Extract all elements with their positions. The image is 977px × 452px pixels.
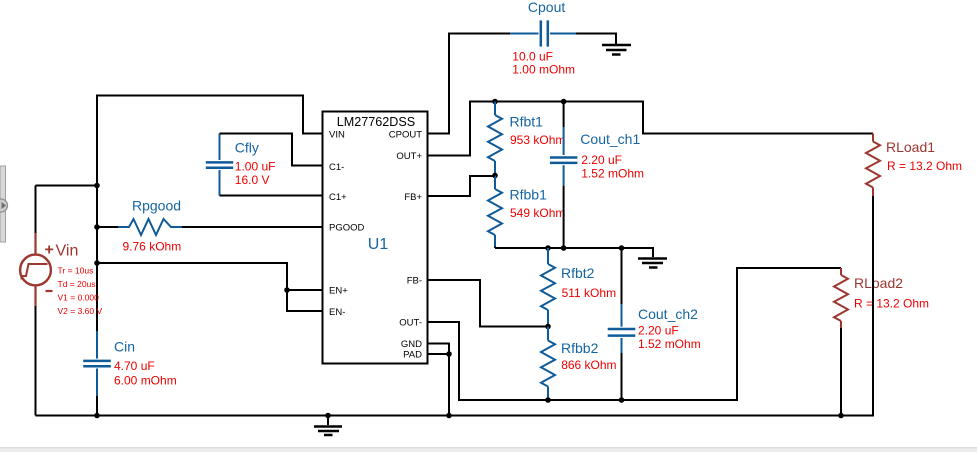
wire: Vin bottom to ground rail — [35, 306, 37, 416]
wire: OUT- net to RLoad2 — [428, 268, 842, 400]
bottom status bar — [0, 448, 977, 452]
node junction Rfbt2/Rfbb2/FB- — [545, 324, 551, 330]
node junction Vin+/bus — [94, 183, 100, 189]
node junction Cin/ground rail — [94, 413, 100, 419]
svg-text:PAD: PAD — [403, 350, 422, 361]
svg-text:Rfbt1: Rfbt1 — [510, 114, 544, 130]
IC U1 LM27762DSS — [323, 112, 428, 364]
wire: CPOUT pin up to Cpout rail — [428, 34, 511, 134]
ground (mid rail) — [638, 259, 667, 268]
voltage source Vin — [20, 233, 78, 306]
svg-text:EN+: EN+ — [329, 286, 348, 297]
svg-text:9.76 kOhm: 9.76 kOhm — [123, 240, 182, 254]
svg-text:Rfbt2: Rfbt2 — [561, 265, 595, 281]
node junction GND/PAD — [446, 351, 452, 357]
svg-text:953 kOhm: 953 kOhm — [510, 133, 565, 147]
wire: Cpout to ground — [576, 34, 616, 45]
svg-text:RLoad1: RLoad1 — [886, 139, 935, 155]
svg-text:2.20 uF: 2.20 uF — [638, 324, 679, 338]
wire: Cfly top to C1- pin — [220, 134, 323, 166]
svg-text:V2 = 3.60 V: V2 = 3.60 V — [58, 306, 103, 316]
value label Vin parameters — [58, 266, 103, 317]
svg-text:R = 13.2 Ohm: R = 13.2 Ohm — [887, 159, 962, 173]
svg-text:GND: GND — [401, 339, 422, 350]
svg-text:1.52 mOhm: 1.52 mOhm — [638, 337, 701, 351]
node junction OUT- rail/Cout_ch2 — [619, 397, 625, 403]
svg-text:LM27762DSS: LM27762DSS — [337, 115, 415, 129]
node junction OUT+/Cout_ch1 — [561, 99, 567, 105]
wire: Vin top lead black — [35, 186, 37, 234]
svg-text:CPOUT: CPOUT — [389, 130, 422, 141]
wire: GND/PAD to ground rail — [448, 354, 450, 416]
capacitor Cin — [83, 331, 111, 396]
svg-text:16.0 V: 16.0 V — [235, 173, 270, 187]
svg-text:549 kOhm: 549 kOhm — [510, 206, 565, 220]
wire: bottom ground rail — [36, 196, 874, 416]
node junction EN+ — [284, 287, 290, 293]
svg-text:OUT-: OUT- — [399, 318, 422, 329]
left panel toggle button — [0, 199, 8, 212]
svg-text:FB-: FB- — [407, 276, 422, 287]
wire: Vin+ to left bus — [36, 185, 98, 187]
svg-text:C1-: C1- — [329, 162, 344, 173]
capacitor Cout_ch1 — [550, 102, 578, 249]
wire: PAD pin — [428, 353, 450, 355]
svg-text:U1: U1 — [368, 236, 389, 253]
resistor Rfbb1 — [488, 176, 502, 247]
svg-text:Cout_ch1: Cout_ch1 — [580, 131, 640, 147]
node junction rail/Cout_ch1 — [561, 245, 567, 251]
svg-text:1.52 mOhm: 1.52 mOhm — [581, 166, 644, 180]
svg-text:FB+: FB+ — [404, 192, 422, 203]
node junction rail/GND-PAD — [446, 413, 452, 419]
svg-text:1.00 mOhm: 1.00 mOhm — [512, 63, 575, 77]
node junction rail/Cout_ch2 — [619, 245, 625, 251]
wire: OUT+ net to RLoad1 — [428, 102, 874, 156]
wire: RLoad2 to ground rail — [840, 328, 842, 416]
wire: bus to EN+ and EN- pins — [97, 263, 323, 311]
svg-text:V1 = 0.000: V1 = 0.000 — [58, 293, 100, 303]
resistor Rfbb2 — [541, 327, 555, 401]
svg-text:OUT+: OUT+ — [396, 151, 422, 162]
svg-text:866 kOhm: 866 kOhm — [561, 358, 616, 372]
svg-text:RLoad2: RLoad2 — [854, 275, 903, 291]
wire: left bus and top-left rail to VIN pin — [97, 96, 323, 332]
node junction Rfbt1/Rfbb1/FB+ — [492, 173, 498, 179]
wire: EN+ branch — [287, 289, 323, 291]
wire: GND pin — [428, 344, 450, 355]
node junction bus/Rpgood — [94, 224, 100, 230]
wire: mid ground rail — [495, 248, 653, 257]
svg-text:Cfly: Cfly — [235, 140, 259, 156]
capacitor Cpout — [510, 20, 576, 46]
capacitor Cout_ch2 — [608, 248, 636, 400]
svg-text:1.00 uF: 1.00 uF — [235, 160, 276, 174]
svg-text:Cout_ch2: Cout_ch2 — [638, 306, 698, 322]
resistor Rfbt2 — [541, 248, 555, 327]
svg-text:VIN: VIN — [329, 130, 345, 141]
resistor RLoad2 — [834, 268, 848, 328]
svg-text:Rpgood: Rpgood — [132, 198, 181, 214]
svg-text:Vin: Vin — [56, 243, 79, 260]
svg-text:R = 13.2 Ohm: R = 13.2 Ohm — [854, 297, 929, 311]
svg-text:2.20 uF: 2.20 uF — [581, 153, 622, 167]
node junction OUT- rail/Rfbb2 — [545, 397, 551, 403]
left panel strip (UI artifact) — [0, 166, 6, 242]
wire: Rfbb1 bottom elbow — [494, 247, 496, 249]
capacitor Cfly — [206, 134, 233, 196]
svg-text:6.00 mOhm: 6.00 mOhm — [114, 373, 177, 387]
svg-text:4.70 uF: 4.70 uF — [114, 359, 155, 373]
wire: FB+ pin to feedback node — [428, 176, 496, 196]
wire: FB- pin to feedback node 2 — [428, 280, 549, 327]
resistor RLoad1 — [866, 134, 880, 197]
node junction rail/RLoad2 — [838, 413, 844, 419]
node junction rail/ground symbol — [325, 413, 331, 419]
wire: Rpgood to PGOOD pin — [182, 226, 323, 228]
resistor Rfbt1 — [488, 102, 502, 176]
wire: Cin to ground rail — [96, 396, 98, 416]
svg-text:EN-: EN- — [329, 307, 345, 318]
node junction OUT+/Rfbt1 — [492, 99, 498, 105]
ground (Cpout) — [602, 45, 631, 55]
svg-text:Rfbb2: Rfbb2 — [561, 340, 599, 356]
resistor Rpgood — [97, 219, 182, 235]
ground (bottom rail) — [314, 416, 342, 436]
svg-text:10.0 uF: 10.0 uF — [512, 50, 553, 64]
svg-text:+: + — [45, 242, 54, 259]
svg-text:Rfbb1: Rfbb1 — [510, 187, 548, 203]
node junction rail/Rfbt2 — [545, 245, 551, 251]
svg-text:Td = 20us: Td = 20us — [58, 279, 96, 289]
svg-text:Cpout: Cpout — [528, 0, 565, 15]
node junction bus/EN — [94, 260, 100, 266]
svg-text:Cin: Cin — [114, 339, 135, 355]
svg-text:Tr = 10us: Tr = 10us — [58, 266, 94, 276]
svg-text:PGOOD: PGOOD — [329, 223, 365, 234]
svg-text:C1+: C1+ — [329, 192, 347, 203]
svg-text:511 kOhm: 511 kOhm — [562, 286, 616, 300]
wire: Cfly bottom to C1+ pin — [220, 195, 323, 197]
